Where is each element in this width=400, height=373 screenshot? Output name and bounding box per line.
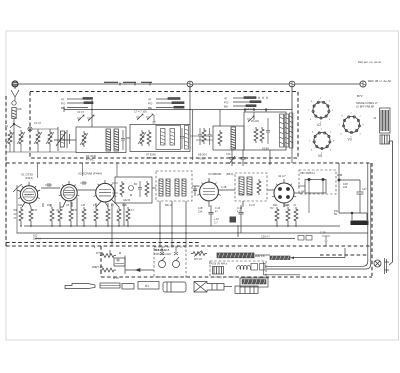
- svg-text:C8: C8: [66, 204, 70, 207]
- svg-text:.01: .01: [293, 204, 297, 207]
- svg-text:C 38: C 38: [320, 231, 326, 235]
- svg-text:R1B: R1B: [122, 204, 127, 207]
- svg-text:8: 8: [342, 116, 344, 118]
- svg-text:2125 21A 2120: 2125 21A 2120: [154, 253, 171, 256]
- svg-text:J1: J1: [373, 116, 377, 120]
- svg-text:A32 B: A32 B: [123, 198, 130, 202]
- svg-text:470: 470: [33, 209, 38, 212]
- svg-text:1: 1: [351, 113, 353, 115]
- svg-text:SPARE FUSES LY: SPARE FUSES LY: [356, 101, 378, 105]
- svg-text:REF 38 v.l. de AF: REF 38 v.l. de AF: [368, 79, 391, 83]
- svg-text:AT 30A6: AT 30A6: [146, 153, 156, 157]
- svg-text:LV BFF FAB.BF: LV BFF FAB.BF: [356, 105, 375, 109]
- svg-text:(F49.1): (F49.1): [25, 176, 33, 180]
- svg-text:PO: PO: [61, 102, 66, 106]
- svg-text:47: 47: [14, 217, 17, 220]
- svg-text:MF-3: MF-3: [165, 203, 172, 207]
- svg-text:RF 3046: RF 3046: [86, 154, 97, 158]
- svg-text:A 4B: A 4B: [337, 174, 343, 177]
- svg-text:C13: C13: [226, 153, 231, 156]
- svg-text:C.7: C.7: [214, 222, 218, 225]
- svg-text:C7 4.7 100: C7 4.7 100: [134, 110, 147, 114]
- svg-text:45 A04: 45 A04: [251, 120, 259, 123]
- svg-text:41.47: 41.47: [249, 204, 256, 207]
- svg-text:A9 104: A9 104: [246, 107, 255, 111]
- svg-text:4.7: 4.7: [131, 209, 135, 212]
- svg-text:4: 4: [330, 150, 332, 152]
- svg-text:W.05: W.05: [113, 277, 119, 280]
- svg-text:PO: PO: [148, 102, 153, 106]
- svg-text:1: 1: [320, 98, 322, 100]
- svg-text:6: 6: [310, 119, 312, 121]
- svg-text:C.1B: C.1B: [221, 186, 227, 189]
- svg-text:P.42.B (F) 484 a: P.42.B (F) 484 a: [209, 263, 228, 266]
- svg-text:100: 100: [17, 107, 22, 111]
- svg-text:A1: A1: [145, 284, 149, 288]
- svg-text:7: 7: [339, 125, 341, 127]
- svg-text:70.007: 70.007: [198, 157, 206, 161]
- svg-text:3: 3: [333, 141, 335, 143]
- svg-text:41 A7: 41 A7: [278, 174, 286, 178]
- svg-text:V2 6CRA8 (F444): V2 6CRA8 (F444): [78, 172, 102, 176]
- svg-text:7: 7: [308, 110, 310, 112]
- svg-text:3: 3: [363, 125, 365, 127]
- svg-text:Mor am v.s. as ar: Mor am v.s. as ar: [358, 60, 381, 64]
- svg-text:V2: V2: [317, 123, 321, 127]
- svg-text:2: 2: [330, 132, 332, 134]
- svg-text:4.7: 4.7: [237, 211, 241, 214]
- svg-text:R14: R14: [18, 204, 23, 207]
- svg-text:B7V: B7V: [357, 94, 363, 98]
- svg-text:2: 2: [360, 116, 362, 118]
- svg-text:V3 6BF80: V3 6BF80: [208, 172, 222, 176]
- svg-text:7: 7: [309, 141, 311, 143]
- svg-text:W2 4.8: W2 4.8: [194, 258, 203, 261]
- svg-text:6: 6: [341, 134, 343, 136]
- svg-text:R24: R24: [273, 204, 278, 207]
- svg-text:V3: V3: [348, 138, 352, 142]
- svg-text:BA: BA: [224, 105, 228, 109]
- svg-text:X80 3A88.11: X80 3A88.11: [300, 171, 315, 175]
- svg-text:C1 47: C1 47: [34, 121, 41, 125]
- svg-text:V5: V5: [318, 154, 322, 158]
- svg-text:1: 1: [321, 129, 323, 131]
- svg-text:8: 8: [312, 132, 314, 134]
- svg-text:8: 8: [311, 101, 313, 103]
- svg-text:HC: HC: [270, 207, 274, 210]
- svg-text:3: 3: [332, 110, 334, 112]
- svg-text:(FB-4): (FB-4): [226, 172, 233, 176]
- svg-text:B4: B4: [334, 213, 338, 216]
- svg-text:6: 6: [311, 150, 313, 152]
- svg-text:L18: L18: [81, 204, 86, 207]
- svg-text:C47: C47: [362, 188, 367, 191]
- svg-text:(4.7 MC): (4.7 MC): [146, 156, 156, 160]
- svg-text:B2: B2: [134, 183, 138, 186]
- svg-text:4L7: 4L7: [14, 213, 19, 216]
- svg-text:2004.A: 2004.A: [33, 238, 41, 241]
- svg-text:23A: 23A: [198, 211, 203, 214]
- svg-text:47: 47: [215, 211, 218, 214]
- svg-text:2: 2: [329, 101, 331, 103]
- svg-text:WT 53: WT 53: [96, 252, 104, 255]
- svg-text:6CF39: 6CF39: [25, 195, 32, 197]
- svg-text:4: 4: [360, 134, 362, 136]
- svg-text:B.B P.B 40.B: B.B P.B 40.B: [155, 249, 170, 252]
- svg-text:C3 47: C3 47: [77, 110, 84, 114]
- svg-text:4-7MC: 4-7MC: [86, 158, 94, 162]
- svg-text:WT 4.5: WT 4.5: [95, 266, 104, 269]
- svg-text:4: 4: [329, 119, 331, 121]
- svg-text:AB 304: AB 304: [198, 153, 207, 157]
- svg-text:C38 4.7: C38 4.7: [261, 236, 270, 239]
- svg-text:270: 270: [73, 209, 78, 212]
- svg-text:C7: C7: [111, 204, 115, 207]
- svg-text:100: 100: [343, 186, 348, 189]
- svg-text:V1 CF39: V1 CF39: [21, 173, 33, 177]
- svg-text:4: 4: [94, 247, 96, 250]
